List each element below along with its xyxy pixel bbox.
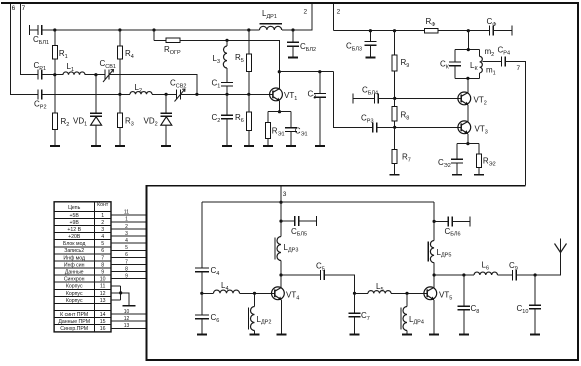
wire pin3 column to choke xyxy=(280,202,282,236)
node CСВ1 drop xyxy=(195,93,198,96)
capacitor CБЛ4 xyxy=(374,93,378,103)
wire L6 to C9 xyxy=(498,274,513,276)
wire C7 node to L5 xyxy=(355,292,369,294)
svg-text:Цепь: Цепь xyxy=(68,205,81,211)
svg-text:Корпус: Корпус xyxy=(66,291,83,297)
capacitor CР1 xyxy=(38,70,42,80)
inductor L4 xyxy=(214,290,240,293)
antenna xyxy=(555,244,567,253)
node CБЛ6 xyxy=(433,220,436,223)
wire LДР3 to VT4 collector xyxy=(280,261,282,288)
wire CБЛ4 to VT2 base xyxy=(378,97,461,99)
svg-text:Запись2: Запись2 xyxy=(64,248,84,254)
wire VT2 collector lead xyxy=(467,78,469,92)
wire contact 6 xyxy=(111,249,146,251)
capacitor CЭ2 xyxy=(451,144,463,175)
capacitor C6 xyxy=(195,293,209,334)
capacitor C2 xyxy=(221,94,233,146)
wire VT1 collector lead xyxy=(279,72,281,89)
capacitor CБЛ5 xyxy=(281,216,317,226)
wire contact 11 stub xyxy=(111,285,121,287)
node R6 top xyxy=(247,93,250,96)
inductor L6 xyxy=(474,272,498,275)
wire contact 7 xyxy=(111,256,146,258)
wire tap m to CР4 xyxy=(482,60,501,62)
inductor L1 xyxy=(63,72,85,75)
capacitor C7 xyxy=(348,293,360,334)
wire amplifier supply rail xyxy=(202,201,434,203)
ground R3 xyxy=(115,145,125,147)
ground connector shield xyxy=(122,305,135,307)
svg-text:10: 10 xyxy=(124,309,130,315)
node VT3 emitter xyxy=(466,142,469,145)
svg-text:1: 1 xyxy=(125,217,128,223)
svg-text:9: 9 xyxy=(101,270,104,276)
svg-text:Синхрон: Синхрон xyxy=(64,277,85,283)
node C8 xyxy=(462,273,465,276)
svg-text:Корпус: Корпус xyxy=(66,284,83,290)
choke LДР3 xyxy=(275,237,281,261)
node VT1 collector xyxy=(278,70,281,73)
amplifier block top edge xyxy=(146,185,526,187)
resistor R1 xyxy=(52,30,57,75)
svg-text:К синт ПРМ: К синт ПРМ xyxy=(60,312,88,318)
transistor VT1 xyxy=(270,88,283,101)
ground R2 xyxy=(50,145,60,147)
resistor R4 xyxy=(117,30,122,94)
inductor LК xyxy=(480,50,483,79)
wire contact 5 xyxy=(111,242,146,244)
capacitor CБЛ6 xyxy=(434,216,470,226)
svg-text:12: 12 xyxy=(124,316,130,322)
svg-text:7: 7 xyxy=(125,259,128,265)
right border of transmitter block xyxy=(577,2,579,360)
svg-text:Данные: Данные xyxy=(65,270,84,276)
terminal CБЛ6 xyxy=(469,216,471,226)
resistor R3 xyxy=(117,94,122,146)
top border of transmitter block xyxy=(1,2,579,4)
pin 2 stub (left, supply of oscillator) xyxy=(293,4,312,30)
wire contact 9 xyxy=(111,271,146,273)
ground VD2 xyxy=(161,145,171,147)
resistor RФ xyxy=(425,28,439,33)
wire contact 14 xyxy=(111,313,146,315)
node pin3 junction xyxy=(279,201,282,204)
choke LДР5 xyxy=(428,241,434,263)
svg-text:2: 2 xyxy=(337,9,341,16)
svg-text:1: 1 xyxy=(101,213,104,219)
wire L5 to VT5 base xyxy=(391,292,427,294)
wire CР3 to VT3 base xyxy=(377,126,462,128)
wire C5 to corner down xyxy=(324,275,354,293)
wire ROGR left xyxy=(154,39,166,41)
svg-text:7: 7 xyxy=(22,5,26,12)
trimmer capacitor CСВ1 xyxy=(103,70,114,83)
wire contact 3 xyxy=(111,228,146,230)
wire CР4 to pin 7 drop xyxy=(505,61,525,185)
svg-text:8: 8 xyxy=(101,262,104,268)
wire output1 to C5 xyxy=(281,274,320,276)
node C10 xyxy=(534,273,537,276)
transistor VT3 xyxy=(458,121,471,134)
node CБЛ3 xyxy=(369,29,372,32)
svg-text:10: 10 xyxy=(100,277,106,283)
choke LДР1 xyxy=(260,24,282,30)
node R9 top xyxy=(393,29,396,32)
resistor R6 xyxy=(246,94,251,146)
svg-text:9: 9 xyxy=(125,274,128,280)
wire L4 to VT4 base xyxy=(240,292,275,294)
wire contact 10 xyxy=(111,278,146,280)
bottom border (shared with amplifier block) xyxy=(146,359,579,361)
wire L2 to CСВ2 xyxy=(152,93,177,95)
resistor ROGR xyxy=(166,38,180,43)
ground C6 xyxy=(197,333,207,335)
inductor L5 xyxy=(368,291,391,294)
inductor L3 xyxy=(223,40,227,82)
svg-text:Инф син: Инф син xyxy=(64,262,85,268)
svg-text:Синхр.ПРМ: Синхр.ПРМ xyxy=(60,326,88,332)
svg-text:13: 13 xyxy=(100,298,106,304)
ground R6 xyxy=(244,145,254,147)
svg-text:Инф мод: Инф мод xyxy=(63,255,85,261)
svg-text:11: 11 xyxy=(124,210,129,216)
terminal CБЛ4 left xyxy=(352,93,354,103)
wire left supply drop to C4 xyxy=(201,202,203,268)
pin 2 stub (right, supply of buffer) xyxy=(333,4,335,31)
capacitor CБЛ2 xyxy=(287,30,299,57)
ground CЭ2 xyxy=(452,174,462,176)
svg-text:Корпус: Корпус xyxy=(66,298,83,304)
capacitor CБЛ1 xyxy=(38,25,42,35)
svg-text:2: 2 xyxy=(304,9,308,16)
wire contact 4 xyxy=(111,235,146,237)
node R7 top xyxy=(393,126,396,129)
ground C10 xyxy=(530,333,540,335)
capacitor CР2 xyxy=(38,89,42,99)
svg-text:6: 6 xyxy=(12,5,16,12)
node tank supply xyxy=(467,29,470,32)
node VT4 collector output xyxy=(279,273,282,276)
wire right supply drop xyxy=(433,202,435,240)
ground R7 xyxy=(390,174,400,176)
ground CЭ1 xyxy=(286,145,296,147)
node CБЛ5 xyxy=(279,220,282,223)
capacitor C8 xyxy=(458,275,470,334)
svg-text:5: 5 xyxy=(101,241,104,247)
wire C9 to antenna corner xyxy=(516,239,560,276)
terminal CБЛ5 xyxy=(316,216,318,226)
ground C7 xyxy=(350,333,360,335)
node L3 top xyxy=(225,39,228,42)
wire contact 16 xyxy=(111,327,146,329)
wire tank bottom rail xyxy=(455,77,480,79)
node R4 top xyxy=(118,28,121,31)
amplifier block left edge xyxy=(146,186,148,361)
resistor R7 xyxy=(392,127,397,175)
wire VT1 emitter lead xyxy=(279,101,281,112)
svg-text:2: 2 xyxy=(125,224,128,230)
table circuit names column xyxy=(58,213,90,332)
node VD2 top xyxy=(165,93,168,96)
transistor VT4 xyxy=(272,287,285,300)
svg-text:3: 3 xyxy=(125,231,128,237)
wire VT5 emitter to ground xyxy=(433,300,435,335)
svg-text:8: 8 xyxy=(125,266,128,272)
node VT5 collector output xyxy=(433,273,436,276)
wire C4 to L4 xyxy=(202,292,214,294)
connector table column divider xyxy=(93,202,95,332)
svg-text:3: 3 xyxy=(283,191,287,198)
ground RЭ1 xyxy=(263,145,273,147)
choke LДР2 xyxy=(249,293,255,334)
ground C3 xyxy=(315,145,325,147)
ground LДР4 xyxy=(402,333,412,335)
connector table frame xyxy=(54,202,111,332)
wire ROGR drop from supply xyxy=(153,30,155,40)
svg-text:16: 16 xyxy=(100,326,106,332)
capacitor CФ xyxy=(490,26,512,36)
capacitor CБЛ1 terminal tick xyxy=(29,25,31,35)
wire tank supply drop xyxy=(467,31,469,50)
svg-text:13: 13 xyxy=(124,323,130,329)
wire L1 to CСВ1 xyxy=(85,74,105,76)
ground VT5 xyxy=(429,333,439,335)
ground CБЛ3 xyxy=(365,57,375,59)
ground VT4 xyxy=(276,333,286,335)
resistor R5 xyxy=(246,30,251,94)
ground VD1 xyxy=(91,145,101,147)
svg-text:3: 3 xyxy=(101,227,104,233)
wire VT2 emitter to VT3 collector xyxy=(467,105,469,122)
ground RЭ2 xyxy=(474,174,484,176)
resistor RЭ2 xyxy=(476,144,481,175)
pin 6 stub wire xyxy=(10,4,38,94)
resistor RЭ1 xyxy=(265,112,270,146)
wire emitter rail 2 xyxy=(457,143,479,145)
wire supply rail after choke xyxy=(282,29,293,31)
capacitor C5 xyxy=(320,270,324,280)
wire collector rail corner down to CР3 line xyxy=(334,72,373,128)
node C7/L5 xyxy=(353,292,356,295)
node VT1 emitter xyxy=(278,110,281,113)
trimmer capacitor CСВ2 xyxy=(175,89,186,102)
wire CСВ1 to corner, down to VT1 base line xyxy=(109,75,197,95)
wire contact 12 stub xyxy=(111,292,121,294)
wire LДР5 to VT5 collector xyxy=(433,263,435,288)
capacitor C3 xyxy=(314,72,326,146)
node LДР4 top xyxy=(405,292,408,295)
svg-text:15: 15 xyxy=(100,319,106,325)
wire base line CР2 to L2 xyxy=(42,93,130,95)
svg-text:Блок мод: Блок мод xyxy=(63,241,85,247)
wire ROGR to VT1 collector corner xyxy=(180,40,279,71)
terminal CФ right xyxy=(511,26,513,36)
svg-text:7: 7 xyxy=(517,65,521,72)
capacitor C10 xyxy=(529,275,541,334)
capacitor CР4 xyxy=(502,56,506,66)
resistor R9 xyxy=(392,31,397,99)
wire contact 2 xyxy=(111,221,146,223)
pin 7 stub wire xyxy=(20,4,38,75)
wire CСВ2 to VT1 base xyxy=(181,93,273,95)
node R5 top xyxy=(247,28,250,31)
wire contact 1 xyxy=(111,214,146,216)
wire contact 13 stub xyxy=(111,299,121,301)
capacitor C1 xyxy=(221,83,233,95)
ground LДР2 xyxy=(250,333,260,335)
wire RФ to CФ xyxy=(438,30,490,32)
node R1 bottom xyxy=(53,73,56,76)
node CБЛ2 xyxy=(291,28,294,31)
node LДР2 top xyxy=(253,292,256,295)
svg-text:Данные ПРМ: Данные ПРМ xyxy=(58,319,90,325)
ground CБЛ2 xyxy=(288,57,298,59)
wire CР1 to L1 xyxy=(42,74,63,76)
svg-text:6: 6 xyxy=(125,252,128,258)
wire supply rail y=30 xyxy=(42,29,260,31)
wire VT3 emitter lead xyxy=(467,134,469,144)
svg-text:4: 4 xyxy=(125,238,128,244)
svg-text:+12 В: +12 В xyxy=(67,227,81,233)
connector table row lines xyxy=(54,218,111,324)
wire contact 15 xyxy=(111,320,146,322)
svg-text:5: 5 xyxy=(125,245,128,251)
wire buffer supply rail xyxy=(334,30,425,32)
svg-text:14: 14 xyxy=(100,312,106,318)
node R1 top xyxy=(53,28,56,31)
svg-text:Конт: Конт xyxy=(97,202,109,208)
svg-text:2: 2 xyxy=(101,220,104,226)
ground C8 xyxy=(459,333,469,335)
wire ground bracket xyxy=(120,286,122,300)
wire tank top rail xyxy=(455,49,480,51)
capacitor C9 xyxy=(513,270,517,281)
pin 3 stub (amplifier supply) xyxy=(280,187,282,203)
capacitor CР3 xyxy=(373,122,377,132)
node R3/R4 column xyxy=(118,93,121,96)
svg-text:4: 4 xyxy=(101,234,104,240)
node R8 top xyxy=(393,97,396,100)
ground C2 xyxy=(222,145,232,147)
svg-text:+9В: +9В xyxy=(70,220,80,226)
capacitor C4 xyxy=(195,268,209,293)
svg-text:+20В: +20В xyxy=(68,234,81,240)
wire bracket to ground xyxy=(121,293,129,306)
transistor VT2 xyxy=(458,92,471,105)
node C1 column xyxy=(225,93,228,96)
capacitor CБЛ3 xyxy=(364,31,376,57)
varicap VD1 xyxy=(90,75,102,146)
connector table header line xyxy=(54,210,111,212)
node C4/C6/L4 xyxy=(200,292,203,295)
wire CБЛ1 left xyxy=(30,29,39,31)
capacitor CК xyxy=(449,50,461,79)
inductor L2 xyxy=(130,92,152,95)
wire contact 8 xyxy=(111,264,146,266)
table header text xyxy=(68,202,109,211)
node ground bracket xyxy=(119,291,122,294)
wire output2 to L6 xyxy=(434,274,474,276)
varicap VD2 xyxy=(160,94,172,146)
node tank top xyxy=(467,48,470,51)
capacitor CЭ1 xyxy=(285,112,297,146)
wire VT4 emitter to ground xyxy=(280,300,282,335)
choke LДР4 xyxy=(401,293,407,334)
node C3 top xyxy=(318,70,321,73)
svg-text:11: 11 xyxy=(100,284,105,290)
node ROGR branch xyxy=(152,28,155,31)
svg-text:6: 6 xyxy=(101,248,104,254)
svg-text:+5В: +5В xyxy=(70,213,80,219)
wire CБЛ4 left xyxy=(353,97,374,99)
svg-text:12: 12 xyxy=(100,291,106,297)
node VD1 top xyxy=(94,73,97,76)
node tank bottom xyxy=(466,77,469,80)
svg-text:7: 7 xyxy=(101,255,104,261)
transistor VT5 xyxy=(424,287,437,300)
resistor R8 xyxy=(392,98,397,127)
wire VT1 collector rail to right xyxy=(279,71,333,73)
resistor R2 xyxy=(52,75,57,146)
wire emitter rail xyxy=(268,111,291,113)
table contact numbers column xyxy=(100,213,106,332)
